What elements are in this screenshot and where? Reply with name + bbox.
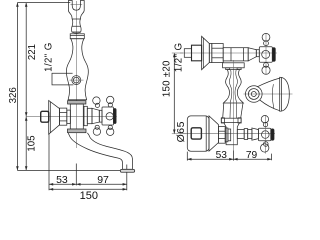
svg-text:150: 150: [80, 190, 98, 200]
svg-text:97: 97: [97, 174, 109, 186]
svg-text:1/2" G: 1/2" G: [43, 42, 54, 72]
svg-text:53: 53: [56, 174, 68, 186]
svg-text:105: 105: [26, 135, 37, 151]
svg-text:326: 326: [8, 87, 19, 103]
svg-text:221: 221: [27, 44, 38, 60]
svg-text:79: 79: [246, 150, 258, 161]
svg-text:150 ±20: 150 ±20: [161, 60, 172, 97]
svg-text:1/2" G: 1/2" G: [174, 43, 185, 73]
svg-text:Ø65: Ø65: [175, 121, 187, 142]
svg-text:53: 53: [216, 150, 228, 161]
